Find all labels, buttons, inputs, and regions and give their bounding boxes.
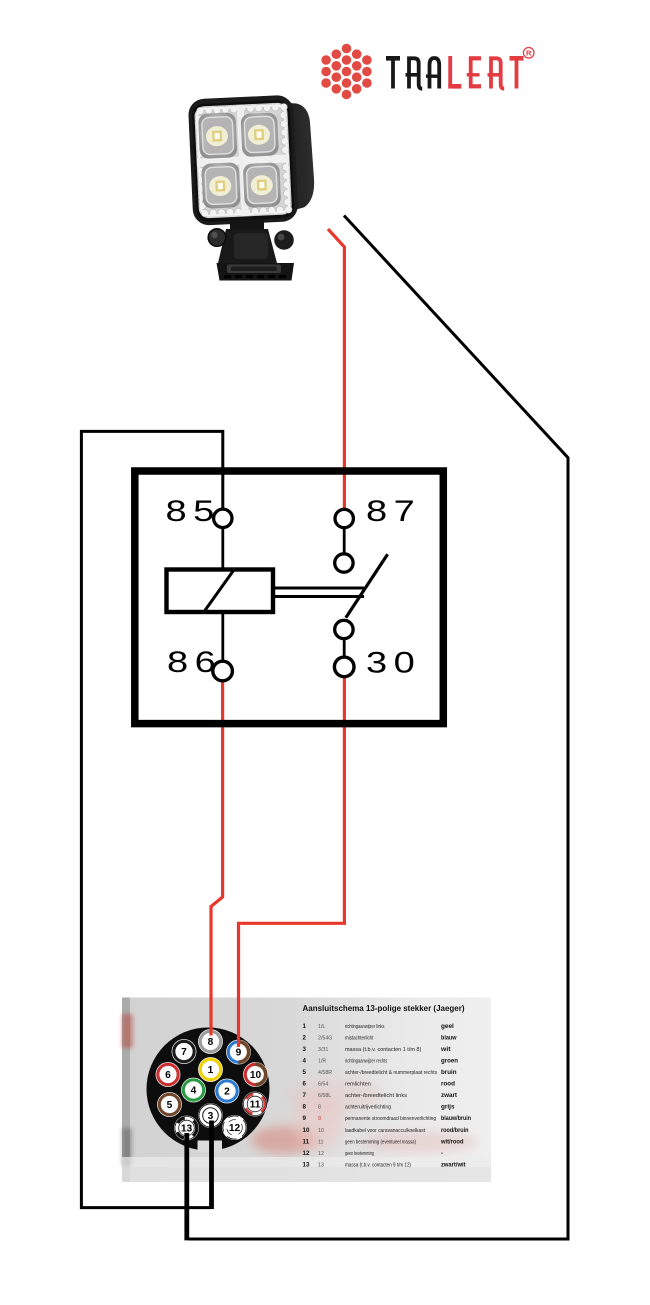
svg-text:grijs: grijs — [441, 1104, 455, 1111]
svg-text:9: 9 — [236, 1048, 242, 1059]
relay pin 87 terminal — [335, 509, 353, 527]
relay switch contact upper — [335, 554, 353, 572]
connector pin 8 — [198, 1029, 223, 1054]
svg-text:geel: geel — [441, 1023, 454, 1030]
connector legend table rows — [303, 1023, 472, 1169]
svg-text:R: R — [526, 49, 532, 58]
relay actuator linkage (double line) — [275, 588, 364, 597]
relay pin 30 terminal — [334, 657, 354, 677]
connector pin 4 — [181, 1078, 206, 1103]
svg-text:blauw/bruin: blauw/bruin — [441, 1115, 471, 1122]
svg-text:5: 5 — [303, 1069, 307, 1076]
svg-text:wit: wit — [440, 1046, 451, 1053]
relay switch contact lower — [335, 620, 353, 638]
connector pin 12 — [222, 1115, 247, 1140]
svg-text:7: 7 — [181, 1047, 187, 1058]
svg-text:1: 1 — [303, 1023, 307, 1030]
svg-text:8: 8 — [303, 1104, 307, 1111]
svg-text:7: 7 — [303, 1092, 307, 1099]
svg-text:2/54G: 2/54G — [318, 1035, 332, 1041]
svg-text:geen bestemming (eventueel mas: geen bestemming (eventueel massa) — [345, 1139, 416, 1145]
svg-text:2: 2 — [224, 1087, 230, 1098]
lamp housing front — [188, 95, 299, 226]
wire: relay pin 85 to connector pin 3 (black, left loop) — [81, 431, 222, 1207]
svg-text:1/R: 1/R — [318, 1059, 326, 1065]
svg-text:30: 30 — [366, 647, 421, 680]
connector pin 6 — [156, 1062, 181, 1087]
connector pin 3 — [198, 1103, 223, 1128]
relay coil connection 86 (black) — [221, 614, 224, 661]
lamp reflector — [194, 102, 292, 218]
LED work lamp photo — [188, 94, 316, 281]
svg-text:13: 13 — [303, 1161, 310, 1168]
svg-text:remlichten: remlichten — [345, 1082, 371, 1088]
svg-text:3/31: 3/31 — [318, 1047, 328, 1053]
relay switch link 30 — [343, 639, 346, 657]
relay switch lever — [346, 554, 388, 618]
Tralert logo dot cluster — [321, 44, 371, 100]
svg-text:permanente stroomdraad binnenv: permanente stroomdraad binnenverlichting — [345, 1116, 436, 1122]
svg-text:11: 11 — [250, 1100, 261, 1111]
svg-text:6: 6 — [165, 1070, 171, 1081]
svg-text:10: 10 — [318, 1128, 324, 1134]
svg-text:85: 85 — [166, 495, 221, 528]
svg-text:-: - — [441, 1150, 443, 1157]
relay switch link 87 — [343, 519, 346, 554]
svg-text:86: 86 — [167, 646, 222, 679]
connector pin 1 — [198, 1057, 223, 1082]
svg-text:6: 6 — [303, 1081, 307, 1088]
connector pin 7 — [172, 1039, 197, 1064]
relay coil connection 85 (black) — [221, 508, 224, 568]
svg-text:9: 9 — [318, 1116, 321, 1122]
Tralert logotype LERT (red) — [448, 56, 523, 89]
svg-text:1: 1 — [208, 1065, 214, 1076]
svg-text:11: 11 — [303, 1138, 310, 1145]
reflector cross divider — [197, 154, 289, 166]
svg-text:zwart: zwart — [441, 1092, 457, 1099]
svg-text:rood: rood — [441, 1081, 455, 1088]
wire: relay pin 30 to connector pin 9 (red) — [239, 667, 345, 1047]
connector pin 5 — [157, 1092, 182, 1117]
svg-text:6/58L: 6/58L — [318, 1093, 331, 1099]
svg-text:2: 2 — [303, 1034, 307, 1041]
wire: lamp minus lead diagonal (black) — [189, 216, 569, 1240]
wire: connector pin 13 riser (black) — [184, 1133, 189, 1240]
wire: connector pin 3 riser (black) — [209, 1121, 214, 1210]
svg-text:4: 4 — [191, 1086, 197, 1097]
svg-text:achter-/breedtelicht & nummerp: achter-/breedtelicht & nummerplaat recht… — [345, 1070, 437, 1076]
svg-text:4: 4 — [303, 1058, 307, 1065]
svg-text:groen: groen — [441, 1058, 458, 1065]
svg-text:blauw: blauw — [441, 1034, 457, 1041]
svg-text:zwart/wit: zwart/wit — [441, 1161, 466, 1168]
svg-text:12: 12 — [229, 1123, 241, 1134]
svg-text:laadkabel voor caravanaccu/koe: laadkabel voor caravanaccu/koelkast — [345, 1128, 425, 1134]
svg-text:10: 10 — [303, 1127, 310, 1134]
svg-text:12: 12 — [318, 1151, 324, 1157]
lamp housing side face — [269, 100, 315, 216]
svg-text:9: 9 — [303, 1115, 307, 1122]
svg-text:4/58R: 4/58R — [318, 1070, 332, 1076]
svg-text:massa (t.b.v. contacten 9 t/m: massa (t.b.v. contacten 9 t/m 12) — [345, 1162, 411, 1168]
svg-text:5: 5 — [167, 1100, 173, 1111]
svg-text:mistachterlicht: mistachterlicht — [345, 1035, 374, 1041]
svg-text:11: 11 — [318, 1139, 324, 1145]
svg-text:1/L: 1/L — [318, 1024, 325, 1030]
svg-text:massa (t.b.v. contacten 1 t/m: massa (t.b.v. contacten 1 t/m 8) — [345, 1047, 422, 1053]
relay pin 86 terminal — [213, 661, 233, 681]
svg-text:87: 87 — [366, 495, 421, 528]
svg-text:13: 13 — [318, 1162, 324, 1168]
svg-text:rood/bruin: rood/bruin — [441, 1127, 469, 1134]
wire: relay pin 86 to connector pin 8 (red) — [211, 671, 223, 1036]
wire: lamp plus lead to relay pin 87 (red) — [328, 229, 344, 516]
LED pocket bottom-left — [201, 162, 241, 209]
svg-text:6/54: 6/54 — [318, 1082, 328, 1088]
lamp mounting bracket — [208, 220, 294, 281]
svg-text:richtingaanwijzer rechts: richtingaanwijzer rechts — [345, 1059, 388, 1065]
svg-text:8: 8 — [318, 1105, 321, 1111]
relay box outline — [135, 471, 444, 724]
svg-text:wit/rood: wit/rood — [440, 1138, 464, 1145]
svg-text:achteruitrijverlichting: achteruitrijverlichting — [345, 1105, 391, 1111]
relay pin 85 terminal — [214, 509, 232, 527]
connector pin 2 — [215, 1079, 240, 1104]
connector pin 13 — [174, 1116, 199, 1141]
connector pin 11 — [243, 1092, 268, 1117]
Tralert logotype TRA (black) — [386, 56, 439, 89]
connector pin 10 — [243, 1062, 268, 1087]
connector info panel background — [122, 998, 491, 1183]
svg-text:3: 3 — [303, 1046, 307, 1053]
svg-text:achter-/breedtelicht links: achter-/breedtelicht links — [345, 1093, 407, 1099]
svg-text:bruin: bruin — [441, 1069, 457, 1076]
svg-text:10: 10 — [250, 1070, 262, 1081]
svg-text:geen bestemming: geen bestemming — [345, 1151, 374, 1157]
svg-text:12: 12 — [303, 1150, 310, 1157]
13-pin connector body — [147, 1028, 270, 1152]
connector pin 9 — [226, 1040, 251, 1065]
relay coil K1 — [167, 570, 274, 613]
svg-text:richtingaanwijzer links: richtingaanwijzer links — [345, 1024, 385, 1030]
svg-text:8: 8 — [208, 1037, 214, 1048]
svg-text:Aansluitschema 13-polige stekk: Aansluitschema 13-polige stekker (Jaeger… — [303, 1004, 465, 1013]
LED pocket top-left — [198, 112, 238, 159]
LED pocket top-right — [241, 112, 279, 157]
LED pocket bottom-right — [243, 162, 281, 208]
registered trademark symbol — [523, 48, 534, 59]
